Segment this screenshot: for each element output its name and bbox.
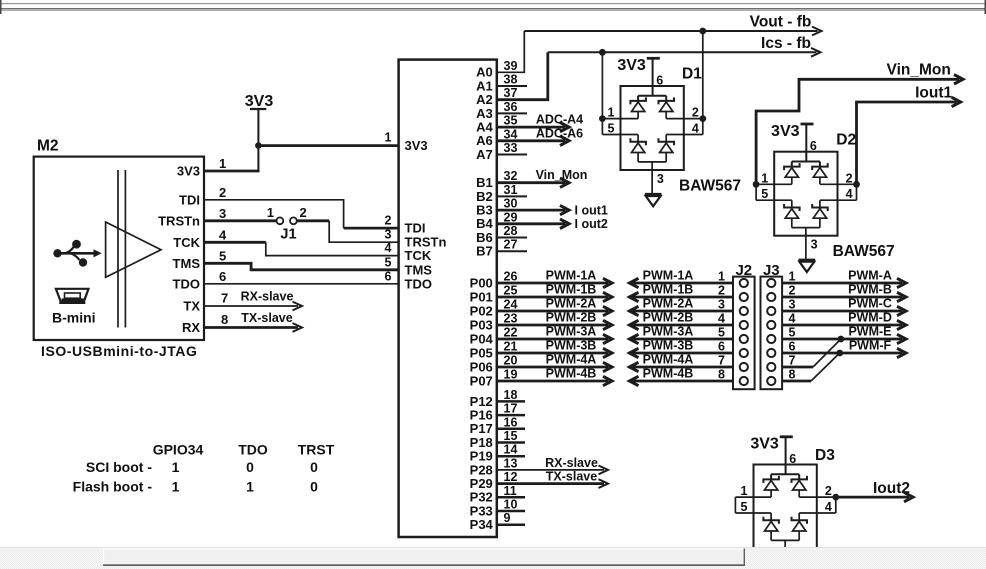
stub P33 pin10	[497, 510, 525, 513]
wire PWM-2A pin24	[497, 297, 612, 316]
svg-text:J1: J1	[280, 227, 296, 243]
svg-text:0: 0	[310, 479, 318, 495]
svg-text:TDO: TDO	[238, 442, 268, 458]
svg-text:8: 8	[718, 368, 725, 382]
svg-text:P03: P03	[470, 317, 493, 332]
wire PWM-2B into J2 pin4	[630, 311, 734, 330]
stub P32 pin11	[497, 496, 525, 499]
U1 right pin name labels group P	[470, 275, 494, 532]
svg-text:14: 14	[504, 443, 518, 457]
svg-text:BAW567: BAW567	[679, 178, 741, 195]
wire PWM-2B pin23	[497, 311, 612, 330]
svg-text:1: 1	[172, 459, 180, 475]
svg-text:PWM-3A: PWM-3A	[643, 325, 694, 339]
svg-text:30: 30	[504, 197, 518, 211]
wire TDO: M2 pin6 to U1 pin6	[204, 283, 399, 285]
svg-text:PWM-2A: PWM-2A	[643, 297, 694, 311]
svg-text:4: 4	[789, 312, 796, 326]
svg-text:TCK: TCK	[405, 248, 432, 263]
junction Vout-fb / D1 pin2 branch	[699, 28, 706, 35]
net Iout1	[857, 85, 961, 185]
M2 pin numbers 1-8	[219, 156, 228, 327]
svg-text:3: 3	[219, 206, 226, 221]
isolation barrier lines	[118, 170, 125, 328]
svg-text:BAW567: BAW567	[833, 243, 895, 260]
diode array D2 BAW567	[756, 123, 856, 272]
svg-text:3: 3	[789, 298, 796, 312]
M2 pin name labels	[158, 164, 201, 336]
svg-text:TCK: TCK	[173, 235, 200, 250]
svg-text:M2: M2	[37, 138, 59, 155]
IC U1 DSP body	[399, 60, 497, 537]
svg-text:Iout1: Iout1	[915, 85, 952, 102]
stub P34 pin9	[497, 523, 525, 526]
wire A2 pin37 up to Ics-fb	[497, 52, 548, 99]
wire PWM-3B pin21	[497, 339, 612, 358]
wire TX / net RX-slave	[204, 305, 298, 307]
svg-text:29: 29	[504, 210, 518, 224]
jumper J1	[267, 205, 307, 243]
wire Vin_Mon pin32	[497, 181, 565, 184]
svg-text:Iout2: Iout2	[873, 480, 910, 497]
svg-text:Vin_Mon: Vin_Mon	[887, 62, 951, 79]
svg-text:19: 19	[504, 368, 518, 382]
wire PWM-4A into J2 pin7	[630, 353, 734, 372]
svg-text:PWM-2B: PWM-2B	[546, 311, 597, 325]
svg-text:1: 1	[385, 131, 392, 145]
svg-text:TDI: TDI	[179, 192, 200, 207]
wire ADC-A4 pin35	[497, 126, 565, 129]
svg-text:4: 4	[718, 312, 725, 326]
B-mini USB connector icon	[56, 289, 89, 303]
svg-text:D3: D3	[815, 447, 835, 464]
svg-text:2: 2	[789, 284, 796, 298]
svg-text:P00: P00	[470, 275, 493, 290]
svg-text:37: 37	[504, 86, 518, 100]
wire 3V3: M2 pin1 to vertical	[204, 170, 260, 173]
svg-text:PWM-2A: PWM-2A	[546, 297, 597, 311]
wire PWM-2A into J2 pin3	[630, 297, 734, 316]
svg-text:PWM-4A: PWM-4A	[643, 353, 694, 367]
svg-text:27: 27	[504, 238, 518, 252]
svg-text:D2: D2	[836, 132, 856, 149]
svg-text:PWM-D: PWM-D	[848, 311, 892, 325]
svg-text:0: 0	[310, 459, 318, 475]
svg-text:TX: TX	[183, 299, 200, 314]
svg-text:SCI boot -: SCI boot -	[86, 459, 152, 475]
junction D1 pin1	[599, 115, 606, 122]
svg-text:B7: B7	[476, 244, 493, 259]
wire I out2 pin29	[497, 222, 565, 225]
svg-text:16: 16	[504, 415, 518, 429]
svg-text:PWM-3B: PWM-3B	[643, 339, 694, 353]
svg-text:11: 11	[504, 484, 517, 498]
connector J2	[733, 262, 755, 389]
svg-text:PWM-3A: PWM-3A	[546, 325, 597, 339]
svg-text:20: 20	[504, 354, 518, 368]
wire J3 pin8 to PWM-F	[782, 353, 840, 382]
wire TX-slave pin12	[497, 470, 608, 488]
svg-text:PWM-2B: PWM-2B	[643, 311, 694, 325]
svg-text:PWM-3B: PWM-3B	[546, 339, 597, 353]
svg-text:PWM-4A: PWM-4A	[546, 353, 597, 367]
power symbol 3V3 (near M2)	[245, 93, 274, 171]
svg-text:PWM-F: PWM-F	[849, 339, 892, 353]
svg-text:P34: P34	[470, 517, 494, 532]
svg-text:PWM-4B: PWM-4B	[643, 367, 694, 381]
svg-text:1: 1	[219, 156, 226, 171]
wire PWM-3B into J2 pin6	[630, 339, 734, 358]
wire PWM-4B into J2 pin8	[630, 367, 734, 386]
stub B6 pin28	[497, 237, 527, 239]
wire TMS: M2 pin5 to U1 pin5	[204, 263, 399, 270]
svg-text:3: 3	[718, 298, 725, 312]
wire PWM-1B into J2 pin2	[630, 283, 734, 302]
M2 body box	[34, 157, 204, 340]
stub P18 pin15	[497, 441, 525, 444]
svg-text:5: 5	[219, 248, 226, 263]
svg-text:PWM-1A: PWM-1A	[643, 269, 694, 283]
stub P17 pin16	[497, 428, 525, 431]
svg-text:5: 5	[385, 255, 392, 269]
wire ADC-A6 pin34	[497, 139, 565, 142]
svg-text:Vout - fb: Vout - fb	[750, 14, 812, 31]
svg-text:P05: P05	[470, 345, 493, 360]
diode array D1 BAW567	[602, 57, 702, 206]
svg-text:6: 6	[718, 340, 725, 354]
net Vout - fb	[524, 14, 821, 36]
wire 3V3 to U1 pin1	[259, 144, 399, 147]
svg-text:GPIO34: GPIO34	[153, 442, 204, 458]
net Iout2	[836, 480, 913, 502]
svg-text:7: 7	[789, 354, 796, 368]
svg-text:34: 34	[504, 127, 518, 141]
wire TCK: M2 pin4 to U1 pin4	[204, 241, 266, 244]
svg-text:RX-slave: RX-slave	[241, 290, 294, 304]
wire J3 pin7 to PWM-E	[782, 339, 841, 368]
svg-text:1: 1	[718, 270, 725, 284]
svg-text:4: 4	[219, 227, 227, 242]
wire D1 pin2 riser	[702, 31, 704, 119]
svg-text:8: 8	[221, 312, 228, 327]
wire PWM-A from J3 pin1	[782, 269, 906, 288]
junction D1 pin2	[699, 115, 706, 122]
svg-text:7: 7	[221, 291, 228, 306]
svg-text:Flash boot -: Flash boot -	[73, 479, 153, 495]
svg-text:18: 18	[504, 388, 518, 402]
stub B2 pin31	[497, 195, 527, 197]
wire PWM-4B pin19	[497, 367, 612, 386]
svg-text:P06: P06	[470, 359, 493, 374]
junction D3 pin2	[832, 494, 839, 501]
svg-text:2: 2	[219, 185, 226, 200]
wire PWM-1A pin26	[497, 269, 612, 288]
svg-text:PWM-1B: PWM-1B	[546, 283, 597, 297]
svg-text:2: 2	[300, 205, 307, 220]
junction D2 pin1	[753, 181, 760, 188]
wire TDI: M2 pin2 to U1 pin2	[204, 200, 344, 228]
svg-text:1: 1	[789, 270, 796, 284]
diode array D3 BAW567	[735, 436, 835, 569]
wire PWM-D from J3 pin4	[782, 311, 906, 330]
svg-text:TDO: TDO	[405, 276, 432, 291]
svg-text:3: 3	[385, 228, 392, 242]
svg-text:9: 9	[504, 511, 511, 525]
U1 right pin numbers 26-9	[504, 270, 518, 526]
svg-text:TX-slave: TX-slave	[546, 470, 597, 484]
svg-text:24: 24	[504, 298, 518, 312]
svg-text:PWM-4B: PWM-4B	[546, 367, 597, 381]
buffer triangle	[106, 222, 161, 277]
wire PWM-E from J3 pin5	[782, 325, 906, 344]
wire I out1 pin30	[497, 209, 565, 212]
stub A7 pin33	[497, 154, 527, 156]
svg-text:RX: RX	[182, 320, 200, 335]
svg-text:5: 5	[789, 326, 796, 340]
wire PWM-F from J3 pin6	[782, 339, 906, 358]
boot mode table	[73, 442, 335, 495]
svg-text:TDO: TDO	[173, 276, 200, 291]
U1 left pin name labels	[405, 138, 447, 291]
wire A0 pin39 up to Vout-fb	[497, 31, 525, 72]
svg-text:35: 35	[504, 114, 518, 128]
svg-text:PWM-B: PWM-B	[848, 283, 892, 297]
svg-text:TDI: TDI	[405, 221, 426, 236]
svg-text:Ics - fb: Ics - fb	[761, 35, 811, 52]
horizontal scrollbar (window chrome)	[0, 547, 986, 569]
svg-text:I out2: I out2	[575, 217, 608, 231]
svg-text:B-mini: B-mini	[52, 310, 96, 326]
wire PWM-1A into J2 pin1	[630, 269, 734, 288]
wire TRSTn: J1 to U1 pin3	[297, 219, 329, 222]
svg-text:32: 32	[504, 169, 518, 183]
svg-text:36: 36	[504, 100, 518, 114]
svg-text:26: 26	[504, 270, 518, 284]
wire PWM-3A into J2 pin5	[630, 325, 734, 344]
svg-text:25: 25	[504, 284, 518, 298]
svg-text:PWM-1B: PWM-1B	[643, 283, 694, 297]
svg-text:31: 31	[504, 183, 518, 197]
svg-text:5: 5	[718, 326, 725, 340]
svg-text:PWM-1A: PWM-1A	[546, 269, 597, 283]
svg-text:ADC-A6: ADC-A6	[536, 126, 583, 140]
svg-text:17: 17	[504, 402, 518, 416]
wire D1 pin1 riser	[601, 52, 603, 118]
junction Ics-fb / D1 pin1 branch	[599, 49, 606, 56]
svg-text:39: 39	[504, 59, 518, 73]
svg-text:6: 6	[789, 340, 796, 354]
net Ics - fb	[548, 35, 821, 57]
wire RX-slave pin13	[497, 456, 608, 474]
svg-text:TMS: TMS	[173, 256, 201, 271]
U1 left pin numbers 1-6	[385, 131, 392, 284]
svg-text:3V3: 3V3	[405, 138, 428, 153]
junction PWM-F	[836, 350, 843, 357]
stub P12 pin18	[497, 400, 525, 403]
svg-text:TX-slave: TX-slave	[241, 311, 292, 325]
U1 right pin numbers 39-27	[504, 59, 518, 252]
svg-text:6: 6	[219, 269, 226, 284]
svg-text:TRST: TRST	[298, 442, 335, 458]
svg-text:23: 23	[504, 312, 518, 326]
svg-text:3V3: 3V3	[177, 164, 200, 179]
svg-text:13: 13	[504, 456, 518, 470]
wire PWM-C from J3 pin3	[782, 297, 906, 316]
svg-text:33: 33	[504, 141, 518, 155]
svg-text:P01: P01	[470, 289, 493, 304]
stub B7 pin27	[497, 250, 527, 252]
svg-text:38: 38	[504, 73, 518, 87]
svg-text:2: 2	[385, 214, 392, 228]
svg-text:7: 7	[718, 354, 725, 368]
svg-text:P02: P02	[470, 303, 493, 318]
wire RX / net TX-slave	[204, 326, 298, 329]
svg-text:3V3: 3V3	[245, 93, 274, 110]
junction D2 pin2	[853, 181, 860, 188]
svg-text:D1: D1	[682, 66, 702, 83]
svg-text:0: 0	[246, 459, 254, 475]
stub A1 pin38	[497, 85, 527, 87]
wire PWM-1B pin25	[497, 283, 612, 302]
U1 right pin name labels group A B	[476, 65, 493, 259]
svg-text:1: 1	[267, 205, 274, 220]
wire PWM-B from J3 pin2	[782, 283, 906, 302]
svg-text:PWM-C: PWM-C	[848, 297, 892, 311]
svg-text:6: 6	[385, 269, 392, 283]
svg-text:22: 22	[504, 326, 518, 340]
svg-text:P07: P07	[470, 373, 493, 388]
junction 3V3 node	[255, 142, 262, 149]
svg-text:TRSTn: TRSTn	[158, 213, 200, 228]
svg-text:RX-slave: RX-slave	[545, 456, 598, 470]
svg-text:I out1: I out1	[575, 203, 608, 217]
connector M2 ISO-USBmini-to-JTAG module	[34, 138, 229, 341]
svg-text:4: 4	[385, 241, 392, 255]
svg-text:ADC-A4: ADC-A4	[536, 113, 583, 127]
net Vin_Mon (top right)	[756, 62, 963, 185]
wire PWM-4A pin20	[497, 353, 612, 372]
stub P16 pin17	[497, 414, 525, 417]
svg-text:8: 8	[789, 368, 796, 382]
svg-text:21: 21	[504, 340, 518, 354]
svg-text:P04: P04	[470, 331, 494, 346]
svg-text:A7: A7	[476, 147, 493, 162]
svg-text:1: 1	[172, 479, 180, 495]
svg-text:1: 1	[246, 479, 254, 495]
stub A3 pin36	[497, 112, 527, 114]
svg-text:12: 12	[504, 470, 518, 484]
wire TRSTn: M2 pin3 to jumper J1	[204, 219, 276, 222]
svg-text:Vin_Mon: Vin_Mon	[536, 168, 588, 182]
svg-text:2: 2	[718, 284, 725, 298]
svg-text:28: 28	[504, 224, 518, 238]
stub P19 pin14	[497, 455, 525, 458]
USB trident icon	[53, 240, 101, 267]
wire PWM-3A pin22	[497, 325, 612, 344]
svg-text:PWM-E: PWM-E	[848, 325, 891, 339]
junction PWM-E	[838, 336, 845, 343]
svg-text:15: 15	[504, 429, 518, 443]
svg-text:PWM-A: PWM-A	[848, 269, 892, 283]
connector J3	[761, 262, 783, 389]
svg-text:10: 10	[504, 498, 518, 512]
svg-text:TMS: TMS	[405, 262, 433, 277]
svg-text:ISO-USBmini-to-JTAG: ISO-USBmini-to-JTAG	[41, 343, 197, 359]
